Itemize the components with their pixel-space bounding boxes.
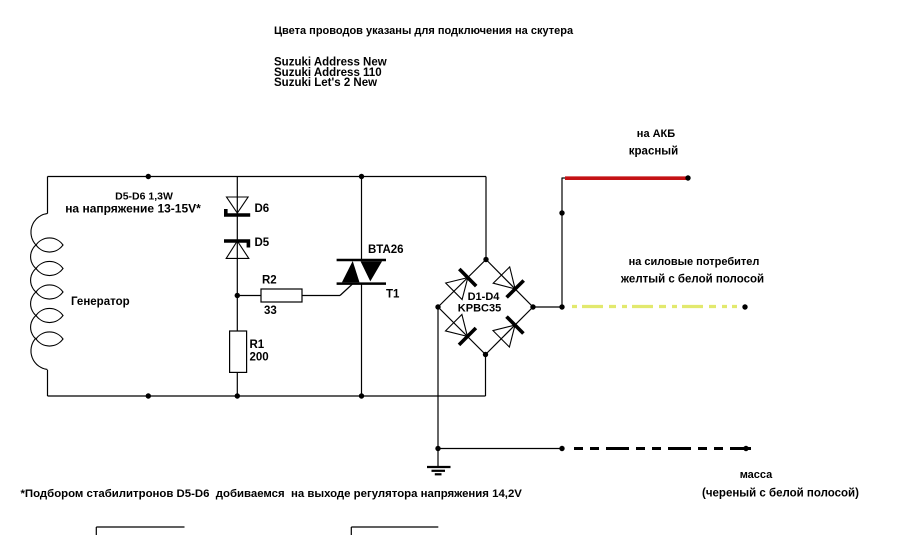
node bridge-left junction dot <box>435 304 440 309</box>
bridge diode D3 bottom-left <box>446 315 476 345</box>
svg-text:Suzuki Let's 2 New: Suzuki Let's 2 New <box>274 77 377 89</box>
node bridge-bottom junction dot <box>483 352 488 357</box>
wire yellow dashed to consumers <box>572 305 737 308</box>
wire bottom horizontal <box>48 395 486 397</box>
bridge side B-R <box>486 307 534 355</box>
svg-text:R2: R2 <box>262 275 277 287</box>
node R1-bot junction dot <box>235 393 240 398</box>
node yellow-wire-end junction dot <box>742 304 747 309</box>
wire red corner stub <box>562 177 565 179</box>
svg-text:KPBC35: KPBC35 <box>458 303 501 315</box>
svg-text:на силовые потребител: на силовые потребител <box>629 256 760 268</box>
svg-text:Цвета проводов указаны для под: Цвета проводов указаны для подключения н… <box>274 25 574 37</box>
svg-text:(череный с белой полосой): (череный с белой полосой) <box>702 488 859 500</box>
wire top horizontal <box>48 176 487 178</box>
wire R1 bottom lead <box>236 372 238 396</box>
node gen-top junction dot <box>146 174 151 179</box>
generator L1 coil <box>31 214 63 370</box>
node ground-wire-end junction dot <box>743 446 748 451</box>
bridge side L-B <box>438 307 486 355</box>
svg-text:красный: красный <box>629 146 678 158</box>
svg-text:D6: D6 <box>255 203 270 215</box>
wire right vertical <box>561 178 563 308</box>
bridge diode D1 top-left <box>446 269 477 300</box>
zener diode D6 <box>224 197 250 215</box>
wire zener branch vertical <box>236 177 238 332</box>
node R2-tap junction dot <box>235 293 240 298</box>
zener diode D5 <box>224 241 250 258</box>
wire R2 right lead to gate bend <box>302 295 340 297</box>
wire gate diagonal <box>340 284 353 296</box>
wire red to battery <box>565 176 686 180</box>
bridge side T-R <box>486 260 533 308</box>
svg-text:Генератор: Генератор <box>71 296 130 308</box>
wire triac top lead <box>361 177 363 260</box>
node ground-junction junction dot <box>435 446 440 451</box>
wire ground horizontal <box>438 448 562 450</box>
svg-text:33: 33 <box>264 305 277 317</box>
svg-text:200: 200 <box>250 352 269 364</box>
wire black dashed to chassis ground <box>574 447 751 450</box>
resistor R2 <box>261 289 302 302</box>
svg-text:D5: D5 <box>255 237 270 249</box>
wire bridge bottom lead <box>485 355 487 397</box>
wire left vertical lower segment <box>47 370 49 396</box>
svg-text:на напряжение 13-15V*: на напряжение 13-15V* <box>65 202 201 216</box>
svg-text:желтый с белой полосой: желтый с белой полосой <box>620 274 764 286</box>
bridge diode D2 top-right <box>493 267 524 298</box>
bridge diode D4 bottom-right <box>493 317 523 347</box>
node red-wire-end junction dot <box>685 175 690 180</box>
triac T1 <box>337 260 386 284</box>
svg-text:D1-D4: D1-D4 <box>468 291 501 303</box>
wire R2 tap to R2 left lead <box>237 295 261 297</box>
node triac-bot junction dot <box>359 393 364 398</box>
node right-wire-mid junction dot <box>559 210 564 215</box>
ground symbol <box>427 467 451 474</box>
node gen-bot junction dot <box>146 393 151 398</box>
connector box 2 bottom edge <box>351 527 438 535</box>
wire bridge left to ground <box>437 307 439 449</box>
wire ground stub <box>437 449 439 467</box>
node dash-start junction dot <box>559 446 564 451</box>
node bridge-top junction dot <box>483 257 488 262</box>
node triac-top junction dot <box>359 174 364 179</box>
node yellow-junction junction dot <box>559 304 564 309</box>
resistor R1 <box>230 331 247 372</box>
svg-text:на АКБ: на АКБ <box>637 128 675 140</box>
wire bridge right to yellow junction <box>533 306 562 308</box>
bridge side L-T <box>438 260 486 308</box>
node bridge-right junction dot <box>530 304 535 309</box>
svg-text:масса: масса <box>740 469 773 481</box>
wire left vertical upper segment <box>47 177 49 214</box>
wire triac bottom lead <box>361 284 363 396</box>
connector box 1 bottom edge <box>96 527 184 535</box>
svg-text:BTA26: BTA26 <box>368 244 404 256</box>
svg-text:R1: R1 <box>250 339 265 351</box>
svg-text:T1: T1 <box>386 289 400 301</box>
wire bridge top lead <box>485 177 487 260</box>
svg-text:*Подбором стабилитронов D5-D6: *Подбором стабилитронов D5-D6 добиваемся… <box>21 488 523 500</box>
